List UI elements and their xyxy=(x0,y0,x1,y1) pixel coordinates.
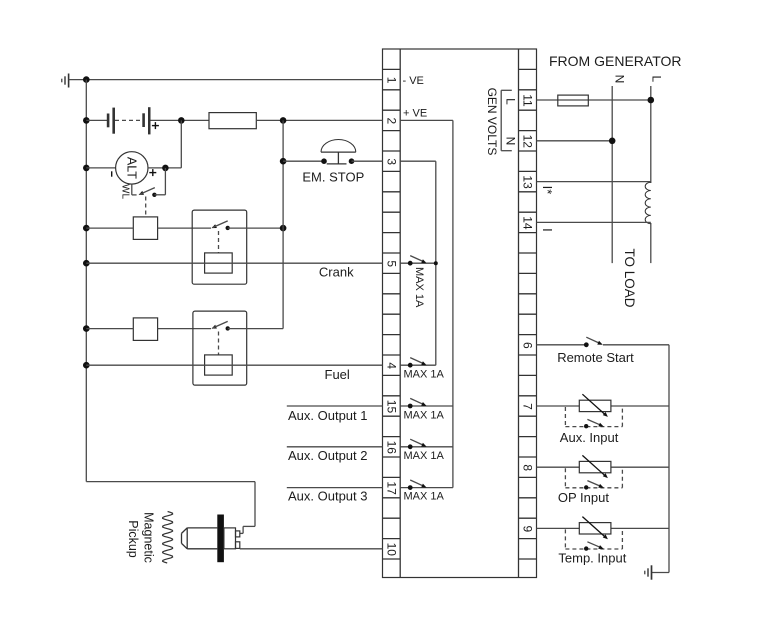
label I xyxy=(540,228,555,232)
svg-text:10: 10 xyxy=(384,543,398,557)
node: bus to crank wire xyxy=(83,260,90,267)
wire terminal 12 to N xyxy=(537,140,613,142)
wire alternator to battery junction xyxy=(148,120,181,167)
svg-text:15: 15 xyxy=(384,400,398,414)
svg-text:6: 6 xyxy=(521,342,535,349)
controller body with terminal strips xyxy=(383,49,537,578)
wire bus to alternator xyxy=(86,167,115,169)
label MAX 1A (aux1) xyxy=(404,410,445,422)
wire terminal 6 to remote start switch xyxy=(537,344,587,346)
svg-text:+ VE: + VE xyxy=(403,107,427,119)
magnetic pickup connector xyxy=(224,528,240,549)
svg-text:L: L xyxy=(504,98,518,105)
wire bus to battery xyxy=(86,119,107,121)
battery + sign xyxy=(152,122,159,129)
temp input sensor (terminal 9) xyxy=(537,517,670,551)
wire -VE: ground to terminal 1 xyxy=(69,79,383,81)
wire fuse to terminal 2 xyxy=(256,119,382,121)
alternator ALT circle xyxy=(116,152,148,184)
left terminal numbers xyxy=(384,77,398,557)
label Aux. Output 3 xyxy=(288,489,368,504)
label Pickup xyxy=(126,520,140,558)
battery dashed middle xyxy=(115,119,142,121)
svg-text:5: 5 xyxy=(384,260,398,267)
node: alt/WL junction xyxy=(162,165,169,172)
svg-text:Crank: Crank xyxy=(319,264,354,279)
crank output contact (terminal 5) xyxy=(400,256,438,266)
svg-text:Fuel: Fuel xyxy=(325,367,350,382)
+VE vertical feed wire xyxy=(282,120,284,328)
svg-text:Remote Start: Remote Start xyxy=(557,350,634,365)
node: +VE junction xyxy=(280,117,287,124)
node: L fuse junction xyxy=(648,97,655,104)
svg-text:1: 1 xyxy=(384,77,398,84)
wire to EM stop xyxy=(283,160,324,162)
EM stop button xyxy=(321,140,356,164)
magnetic pickup flange xyxy=(217,515,224,563)
alternator plus mark xyxy=(149,169,156,176)
svg-text:Pickup: Pickup xyxy=(126,520,140,558)
relay RL1 contact xyxy=(212,221,284,230)
svg-text:I*: I* xyxy=(540,186,555,195)
crank wire bus to terminal 5 xyxy=(86,262,382,264)
svg-text:Aux. Output 2: Aux. Output 2 xyxy=(288,448,368,463)
relay RL1 box xyxy=(192,210,247,284)
label OP Input xyxy=(558,490,609,505)
svg-text:GEN VOLTS: GEN VOLTS xyxy=(485,88,499,156)
node: alt wire xyxy=(83,165,90,172)
label I* xyxy=(540,186,555,195)
fuse F2 xyxy=(558,95,589,106)
node: bus to fuel wire xyxy=(83,362,90,369)
internal wire from terminal 3 xyxy=(400,161,436,365)
node: battery/alt junction xyxy=(178,117,185,124)
node: bus to K1 xyxy=(83,225,90,232)
wire bus to K2 xyxy=(86,328,133,330)
svg-text:ALT: ALT xyxy=(124,157,138,179)
label L (generator) xyxy=(650,75,664,82)
wire remote start to input bus xyxy=(603,344,669,346)
wire pickup to terminal 10 xyxy=(240,548,383,550)
svg-text:WL: WL xyxy=(120,184,131,199)
svg-text:N: N xyxy=(613,75,627,84)
label Aux. Output 2 xyxy=(288,448,368,463)
GEN VOLTS bracket xyxy=(501,90,512,150)
label MAX 1A (aux2) xyxy=(404,450,445,462)
right terminal numbers xyxy=(521,94,535,532)
remote start switch xyxy=(584,337,603,347)
ground (inputs common) xyxy=(645,565,652,579)
bus wire down to pickup xyxy=(86,482,255,534)
label N (generator) xyxy=(613,75,627,84)
node: bus top xyxy=(83,76,90,83)
relay RL1 coil xyxy=(205,253,233,273)
label Magnetic xyxy=(142,512,156,563)
svg-text:8: 8 xyxy=(521,464,535,471)
aux output 1 stub wire xyxy=(287,405,383,407)
svg-text:Temp. Input: Temp. Input xyxy=(558,551,626,566)
relay coil K2 box xyxy=(133,318,157,341)
svg-text:- VE: - VE xyxy=(403,75,424,87)
svg-text:MAX 1A: MAX 1A xyxy=(404,490,445,502)
label Aux. Input xyxy=(560,430,619,445)
label ALT xyxy=(124,157,138,179)
svg-text:MAX 1A: MAX 1A xyxy=(404,450,445,462)
svg-text:FROM GENERATOR: FROM GENERATOR xyxy=(549,53,682,69)
svg-text:MAX 1A: MAX 1A xyxy=(404,369,445,381)
svg-text:17: 17 xyxy=(384,481,398,495)
label FROM GENERATOR xyxy=(549,53,682,69)
svg-text:4: 4 xyxy=(384,362,398,369)
wire terminal 13 (I*) to CT xyxy=(537,181,651,183)
svg-text:I: I xyxy=(540,228,555,232)
aux output 1 contact (terminal 15) xyxy=(400,398,453,408)
label Aux. Output 1 xyxy=(288,408,368,423)
label - VE xyxy=(403,75,424,87)
wire K2 to relay contact xyxy=(158,328,211,330)
fuel wire bus to terminal 4 xyxy=(86,364,382,366)
fuse F1 xyxy=(209,113,256,129)
node: EM stop junction xyxy=(280,158,287,165)
aux output 3 stub wire xyxy=(287,487,383,489)
relay RL2 box xyxy=(193,311,247,385)
label MAX 1A (vertical, crank) xyxy=(413,267,425,308)
RL1 dashed actuator link xyxy=(218,231,220,253)
label WL xyxy=(120,184,131,199)
label + VE xyxy=(403,107,427,119)
alternator minus mark xyxy=(111,171,113,176)
generator N line xyxy=(611,86,613,263)
magnetic pickup toothed wheel (wavy line) xyxy=(163,512,173,564)
svg-text:9: 9 xyxy=(521,526,535,533)
internal +VE bus from terminal 2 xyxy=(400,120,453,487)
label Remote Start xyxy=(557,350,634,365)
left -VE bus wire xyxy=(85,80,87,482)
svg-text:TO LOAD: TO LOAD xyxy=(622,248,637,307)
wire alt bottom to WL switch xyxy=(132,184,137,195)
svg-text:Aux. Output 1: Aux. Output 1 xyxy=(288,408,368,423)
wire EM stop to terminal 3 xyxy=(352,160,383,162)
relay RL2 contact xyxy=(212,321,284,330)
label MAX 1A (aux3) xyxy=(404,490,445,502)
OP input sensor (terminal 8) xyxy=(537,455,670,489)
aux output 2 stub wire xyxy=(287,446,383,448)
svg-text:Aux. Input: Aux. Input xyxy=(560,430,619,445)
current transformer CT coil xyxy=(645,182,651,224)
wire terminal 14 (I) to CT xyxy=(537,221,651,223)
svg-text:MAX 1A: MAX 1A xyxy=(404,410,445,422)
wire bus to K1 xyxy=(86,227,133,229)
svg-text:14: 14 xyxy=(521,216,535,230)
battery B2 plates xyxy=(142,107,150,134)
aux output 3 contact (terminal 17) xyxy=(400,480,453,490)
label TO LOAD xyxy=(622,248,637,307)
WL switch xyxy=(139,168,166,197)
WL dashed link to relay coil K1 xyxy=(145,197,147,217)
fuel output contact (terminal 4) xyxy=(400,358,436,368)
generator L line xyxy=(650,86,652,263)
label Temp. Input xyxy=(558,551,626,566)
node: RL1 to +VE line xyxy=(280,225,287,232)
svg-text:13: 13 xyxy=(521,175,535,189)
input common bus xyxy=(652,345,670,573)
svg-text:MAX 1A: MAX 1A xyxy=(413,267,425,308)
svg-text:N: N xyxy=(504,137,518,146)
RL2 dashed actuator link xyxy=(218,332,220,355)
svg-text:L: L xyxy=(650,75,664,82)
label Fuel xyxy=(325,367,350,382)
svg-text:7: 7 xyxy=(521,403,535,410)
svg-text:16: 16 xyxy=(384,441,398,455)
battery B1 plates xyxy=(107,108,115,134)
aux input sensor (terminal 7) xyxy=(537,394,670,428)
ground (battery negative) xyxy=(62,74,69,88)
aux output 2 contact (terminal 16) xyxy=(400,439,453,449)
svg-text:12: 12 xyxy=(521,135,535,149)
label MAX 1A (fuel) xyxy=(404,369,445,381)
svg-text:2: 2 xyxy=(384,118,398,125)
relay coil K1 box xyxy=(133,217,157,240)
label N (gen volts) xyxy=(504,137,518,146)
node: battery wire xyxy=(83,117,90,124)
wire K1 to relay contact xyxy=(158,227,211,229)
svg-text:11: 11 xyxy=(521,94,535,107)
label L (gen volts) xyxy=(504,98,518,105)
svg-text:EM. STOP: EM. STOP xyxy=(302,170,364,185)
node: bus to K2 xyxy=(83,325,90,332)
relay RL2 coil xyxy=(205,355,233,375)
wire battery to fuse xyxy=(151,119,210,121)
svg-text:Aux. Output 3: Aux. Output 3 xyxy=(288,489,368,504)
svg-text:3: 3 xyxy=(384,158,398,165)
svg-text:OP Input: OP Input xyxy=(558,490,609,505)
label GEN VOLTS xyxy=(485,88,499,156)
label Crank xyxy=(319,264,354,279)
svg-text:Magnetic: Magnetic xyxy=(142,512,156,563)
label EM. STOP xyxy=(302,170,364,185)
wire terminal 11 to L xyxy=(537,99,651,101)
magnetic pickup body xyxy=(182,528,218,549)
node: N junction xyxy=(609,138,616,145)
